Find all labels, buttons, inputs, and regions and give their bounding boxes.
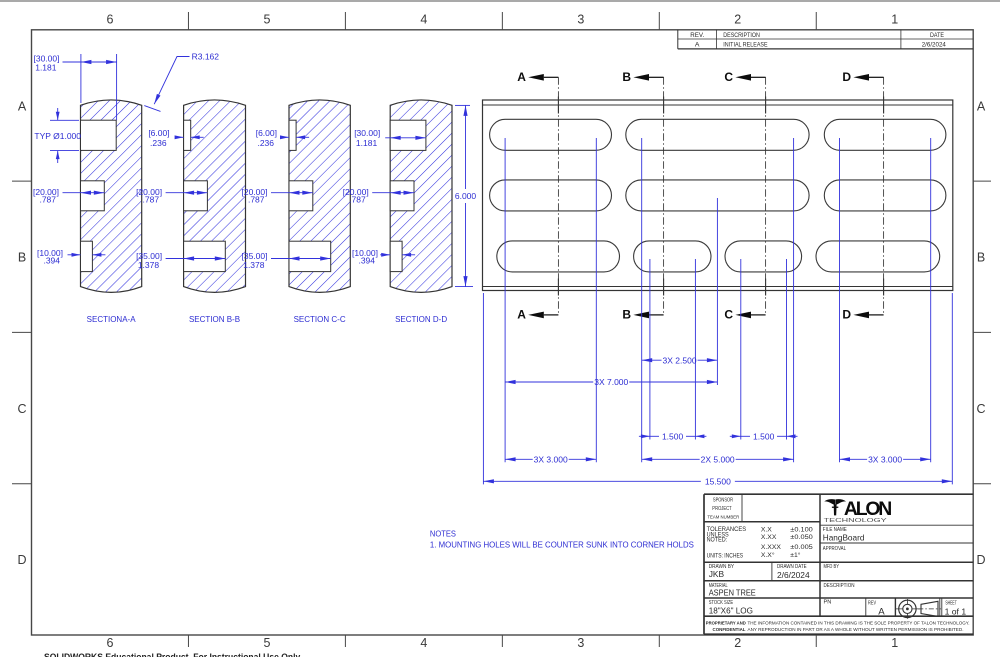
svg-text:3: 3 xyxy=(577,636,584,650)
svg-text:3X 7.000: 3X 7.000 xyxy=(594,377,628,387)
svg-text:.787: .787 xyxy=(39,195,56,205)
svg-text:B: B xyxy=(622,70,631,84)
svg-text:B: B xyxy=(977,251,985,265)
svg-text:C: C xyxy=(17,402,26,416)
svg-text:1.378: 1.378 xyxy=(138,260,160,270)
svg-text:SPONSOR: SPONSOR xyxy=(713,497,733,503)
svg-text:3X 3.000: 3X 3.000 xyxy=(868,454,902,464)
svg-text:C: C xyxy=(724,308,733,322)
vertical dimension 6.000 for section D-D height xyxy=(455,104,470,106)
svg-text:REV: REV xyxy=(868,600,876,606)
svg-text:TEAM NUMBER: TEAM NUMBER xyxy=(707,515,739,521)
dimension 1.500 right (row 3 short slot) xyxy=(730,435,741,437)
svg-text:A: A xyxy=(878,606,885,617)
cut label C arrow at y=314.9 xyxy=(751,314,766,316)
svg-text:4: 4 xyxy=(420,13,427,27)
dimension [10.00] .394 on section D-D bottom notch xyxy=(380,254,390,256)
svg-text:HangBoard: HangBoard xyxy=(823,533,865,543)
svg-text:X.XX: X.XX xyxy=(761,534,777,541)
extension line x=505.1 xyxy=(504,138,506,462)
section D-D hatched log body xyxy=(390,100,452,292)
svg-text:D: D xyxy=(17,553,26,567)
svg-text:.236: .236 xyxy=(150,138,167,148)
cut line A solid edge crossings xyxy=(557,97,559,114)
svg-text:4: 4 xyxy=(420,636,427,650)
svg-text:D: D xyxy=(842,308,851,322)
svg-text:.787: .787 xyxy=(248,195,265,205)
grey top screen edge strip xyxy=(0,0,1000,2)
svg-text:1.500: 1.500 xyxy=(662,431,684,441)
section C-C top notch xyxy=(289,120,296,150)
hangboard top view upper edge line xyxy=(483,104,953,106)
TALON logo claw-wing emblem xyxy=(824,499,835,505)
svg-text:ASPEN TREE: ASPEN TREE xyxy=(709,587,756,597)
extension line x=483.4 xyxy=(482,293,484,484)
third angle projection symbol - truncated cone xyxy=(921,601,938,616)
slot row 1 #3 xyxy=(824,119,946,150)
svg-text:2X 5.000: 2X 5.000 xyxy=(701,454,735,464)
svg-text:1. MOUNTING HOLES WILL BE COUN: 1. MOUNTING HOLES WILL BE COUNTER SUNK I… xyxy=(430,541,695,550)
dimension [20.00] .787 on section D-D middle notch xyxy=(372,192,414,194)
zone tick marks top/bottom xyxy=(187,12,189,30)
svg-text:6: 6 xyxy=(106,636,113,650)
svg-text:1: 1 xyxy=(891,13,898,27)
slot row 2 #1 xyxy=(490,180,612,211)
svg-text:±0.050: ±0.050 xyxy=(790,534,813,541)
svg-text:D: D xyxy=(976,553,985,567)
dimension [20.00] .787 on section B-B middle notch xyxy=(166,192,208,194)
slot row 2 #3 xyxy=(824,180,946,211)
svg-text:.394: .394 xyxy=(358,256,375,266)
svg-text:±0.005: ±0.005 xyxy=(790,544,813,551)
svg-text:1 of 1: 1 of 1 xyxy=(945,606,967,616)
svg-text:[30.00]: [30.00] xyxy=(354,128,380,138)
svg-text:B: B xyxy=(622,308,631,322)
svg-text:DESCRIPTION: DESCRIPTION xyxy=(824,583,855,589)
svg-text:6: 6 xyxy=(106,13,113,27)
svg-text:SECTIONA-A: SECTIONA-A xyxy=(87,315,137,324)
dimension [30.00] 1.181 on section D-D top notch xyxy=(385,137,426,139)
extension line x=649.9 xyxy=(649,259,651,440)
extension line x=793.6 xyxy=(793,138,795,462)
svg-text:NOTED:: NOTED: xyxy=(707,537,728,544)
svg-text:3X 2.500: 3X 2.500 xyxy=(663,355,697,365)
cut label C arrow at y=77.3 xyxy=(751,76,766,78)
extension line x=695.4 xyxy=(694,259,696,440)
extension line x=596.3 xyxy=(595,138,597,462)
svg-text:SOLIDWORKS Educational Product: SOLIDWORKS Educational Product. For Inst… xyxy=(44,652,302,657)
hangboard top view lower edge line xyxy=(483,286,953,288)
section B-B middle notch xyxy=(184,181,208,211)
svg-text:TYP Ø1.000: TYP Ø1.000 xyxy=(34,131,81,141)
svg-text:6.000: 6.000 xyxy=(455,191,477,201)
svg-text:C: C xyxy=(976,402,985,416)
TALON logo T stem xyxy=(834,504,837,515)
svg-text:2/6/2024: 2/6/2024 xyxy=(922,42,946,49)
svg-text:A: A xyxy=(517,308,526,322)
dimension [6.00] .236 on section C-C top notch xyxy=(282,136,290,138)
svg-text:1.181: 1.181 xyxy=(35,63,57,73)
section A-A top notch xyxy=(81,120,117,150)
extension line x=717.4 xyxy=(716,198,718,385)
svg-text:SECTION C-C: SECTION C-C xyxy=(294,315,346,324)
title block horizontal dividers xyxy=(704,521,820,523)
dimension 1.500 left (row 3 short slot) xyxy=(639,435,650,437)
slot row 3 #2 xyxy=(634,241,711,272)
section B-B bottom notch xyxy=(184,241,226,271)
extension line x=641.7 xyxy=(641,138,643,462)
slot row 3 #3 xyxy=(725,241,802,272)
svg-text:5: 5 xyxy=(263,636,270,650)
cut label D arrow at y=77.3 xyxy=(869,76,884,78)
svg-text:CONFIDENTIAL: CONFIDENTIAL xyxy=(713,627,746,632)
cut line B chain line xyxy=(663,77,665,315)
dimension [20.00] .787 on section A-A middle notch xyxy=(63,192,105,194)
section D-D bottom notch xyxy=(390,241,402,271)
svg-text:SECTION D-D: SECTION D-D xyxy=(395,315,447,324)
dimension 3X 2.500 xyxy=(642,359,662,361)
svg-text:A: A xyxy=(18,99,27,113)
section C-C bottom notch xyxy=(289,241,331,271)
section A-A hatched log body xyxy=(81,100,142,292)
dimension [20.00] .787 on section C-C middle notch xyxy=(271,192,313,194)
revision table xyxy=(677,30,679,49)
svg-text:INITIAL RELEASE: INITIAL RELEASE xyxy=(723,42,768,49)
hangboard top view outer outline xyxy=(483,100,953,291)
svg-text:DATE: DATE xyxy=(930,32,944,39)
svg-text:THE INFORMATION CONTAINED IN T: THE INFORMATION CONTAINED IN THIS DRAWIN… xyxy=(748,621,970,626)
svg-text:.787: .787 xyxy=(143,195,160,205)
section C-C middle notch xyxy=(289,181,313,211)
svg-text:1.181: 1.181 xyxy=(356,138,378,148)
svg-text:A: A xyxy=(977,99,986,113)
svg-text:2: 2 xyxy=(734,13,741,27)
svg-text:2: 2 xyxy=(734,636,741,650)
slot row 1 #1 xyxy=(490,119,612,150)
extension line x=839.5 xyxy=(839,138,841,462)
svg-text:SECTION B-B: SECTION B-B xyxy=(189,315,240,324)
cut label A arrow at y=77.3 xyxy=(544,76,559,78)
svg-text:X.X°: X.X° xyxy=(761,551,775,559)
section A-A bottom notch xyxy=(81,241,93,271)
cut line C chain line xyxy=(765,77,767,315)
svg-text:PROPRIETARY AND: PROPRIETARY AND xyxy=(706,621,747,626)
svg-text:NOTES: NOTES xyxy=(430,529,456,538)
svg-text:UNITS: INCHES: UNITS: INCHES xyxy=(707,553,744,560)
svg-text:DESCRIPTION: DESCRIPTION xyxy=(723,32,760,39)
svg-text:D: D xyxy=(842,70,851,84)
svg-text:TECHNOLOGY: TECHNOLOGY xyxy=(824,518,888,524)
svg-text:X.XXX: X.XXX xyxy=(761,544,781,551)
dimension [35.00] 1.378 on section B-B bottom notch xyxy=(166,258,226,260)
slot row 3 #4 xyxy=(816,241,940,272)
svg-text:REV.: REV. xyxy=(690,32,704,39)
dimension 2X 5.000 xyxy=(642,458,700,460)
zone tick marks left/right xyxy=(12,180,32,182)
svg-text:PN: PN xyxy=(824,600,832,606)
cut line C solid edge crossings xyxy=(765,97,767,114)
cut label A arrow at y=314.9 xyxy=(544,314,559,316)
svg-text:1.500: 1.500 xyxy=(753,431,775,441)
svg-text:.236: .236 xyxy=(257,138,274,148)
extension line x=786.5 xyxy=(786,259,788,440)
dimension 3X 3.000 left xyxy=(505,458,533,460)
dimension [6.00] .236 on section B-B top notch xyxy=(176,136,184,138)
svg-text:3: 3 xyxy=(577,13,584,27)
dimension 3X 3.000 right xyxy=(840,458,868,460)
svg-text:APPROVAL: APPROVAL xyxy=(823,546,846,552)
section B-B hatched log body xyxy=(184,100,246,292)
svg-text:15.500: 15.500 xyxy=(705,476,731,486)
svg-text:3X 3.000: 3X 3.000 xyxy=(534,454,568,464)
svg-text:18"X6" LOG: 18"X6" LOG xyxy=(709,606,754,616)
section C-C hatched log body xyxy=(289,100,350,292)
svg-text:MFD BY: MFD BY xyxy=(824,564,840,570)
svg-text:A: A xyxy=(517,70,526,84)
third angle projection symbol - target circles xyxy=(895,608,920,610)
svg-text:ALON: ALON xyxy=(844,498,891,520)
section D-D top notch xyxy=(390,120,426,150)
cut label B arrow at y=314.9 xyxy=(649,314,664,316)
title block outer border xyxy=(703,494,705,634)
svg-text:PROJECT: PROJECT xyxy=(712,506,732,512)
svg-text:5: 5 xyxy=(263,13,270,27)
extension line x=740.8 xyxy=(740,259,742,440)
slot row 2 #2 xyxy=(626,180,809,211)
svg-text:1.378: 1.378 xyxy=(243,260,265,270)
svg-text:B: B xyxy=(18,251,26,265)
slot row 1 #2 xyxy=(626,119,809,150)
svg-text:2/6/2024: 2/6/2024 xyxy=(777,570,810,580)
dimension 15.500 overall width xyxy=(483,480,700,482)
extension line x=930.7 xyxy=(930,138,932,462)
svg-text:X.X: X.X xyxy=(761,526,772,533)
section A-A middle notch xyxy=(81,181,105,211)
svg-text:.787: .787 xyxy=(349,195,366,205)
cut line D chain line xyxy=(883,77,885,315)
section D-D middle notch xyxy=(390,181,414,211)
title block vertical dividers xyxy=(741,494,743,522)
svg-text:[6.00]: [6.00] xyxy=(148,128,169,138)
svg-text:[6.00]: [6.00] xyxy=(256,128,277,138)
cut label B arrow at y=77.3 xyxy=(649,76,664,78)
slot row 3 #1 xyxy=(497,241,620,272)
svg-text:C: C xyxy=(724,70,733,84)
dimension [10.00] .394 on section A-A bottom notch xyxy=(68,254,81,256)
extension line x=952.3 xyxy=(951,293,953,484)
svg-text:JKB: JKB xyxy=(709,569,725,579)
cut line B solid edge crossings xyxy=(663,97,665,114)
cut line D solid edge crossings xyxy=(883,97,885,114)
svg-text:ANY REPRODUCTION IN PART OR AS: ANY REPRODUCTION IN PART OR AS A WHOLE W… xyxy=(748,627,964,632)
section B-B top notch xyxy=(184,120,191,150)
svg-text:1: 1 xyxy=(891,636,898,650)
dimension [35.00] 1.378 on section C-C bottom notch xyxy=(271,258,331,260)
svg-text:.394: .394 xyxy=(43,256,60,266)
svg-text:±1°: ±1° xyxy=(790,551,801,559)
svg-text:R3.162: R3.162 xyxy=(192,52,220,62)
cut label D arrow at y=314.9 xyxy=(869,314,884,316)
cut line A chain line xyxy=(557,77,559,315)
dimension 3X 7.000 xyxy=(505,381,593,383)
svg-text:±0.100: ±0.100 xyxy=(790,526,813,533)
svg-text:A: A xyxy=(695,42,700,49)
